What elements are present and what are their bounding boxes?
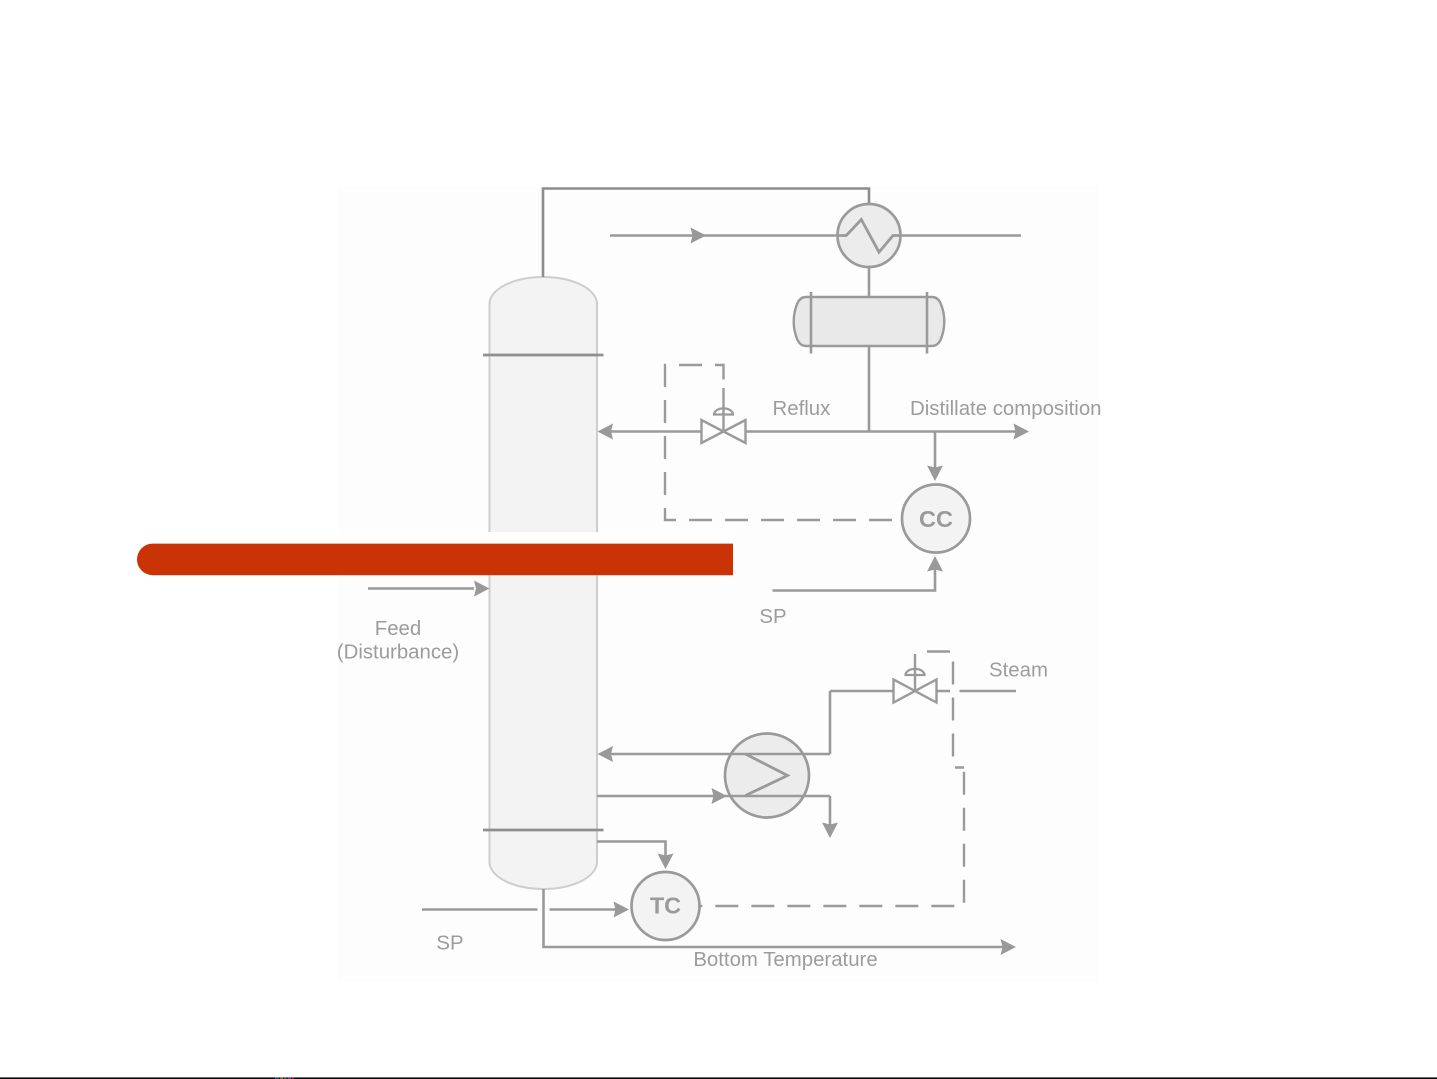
svg-text:Distillate composition: Distillate composition <box>910 398 1102 420</box>
svg-text:(Disturbance): (Disturbance) <box>337 642 459 664</box>
svg-text:SP: SP <box>759 606 786 628</box>
svg-text:SP: SP <box>436 933 463 955</box>
svg-text:Feed: Feed <box>375 618 421 640</box>
svg-text:TC: TC <box>650 893 681 919</box>
svg-text:CC: CC <box>919 506 953 532</box>
svg-text:Steam: Steam <box>989 660 1048 682</box>
svg-text:Bottom Temperature: Bottom Temperature <box>693 949 877 971</box>
svg-text:Reflux: Reflux <box>773 398 831 420</box>
